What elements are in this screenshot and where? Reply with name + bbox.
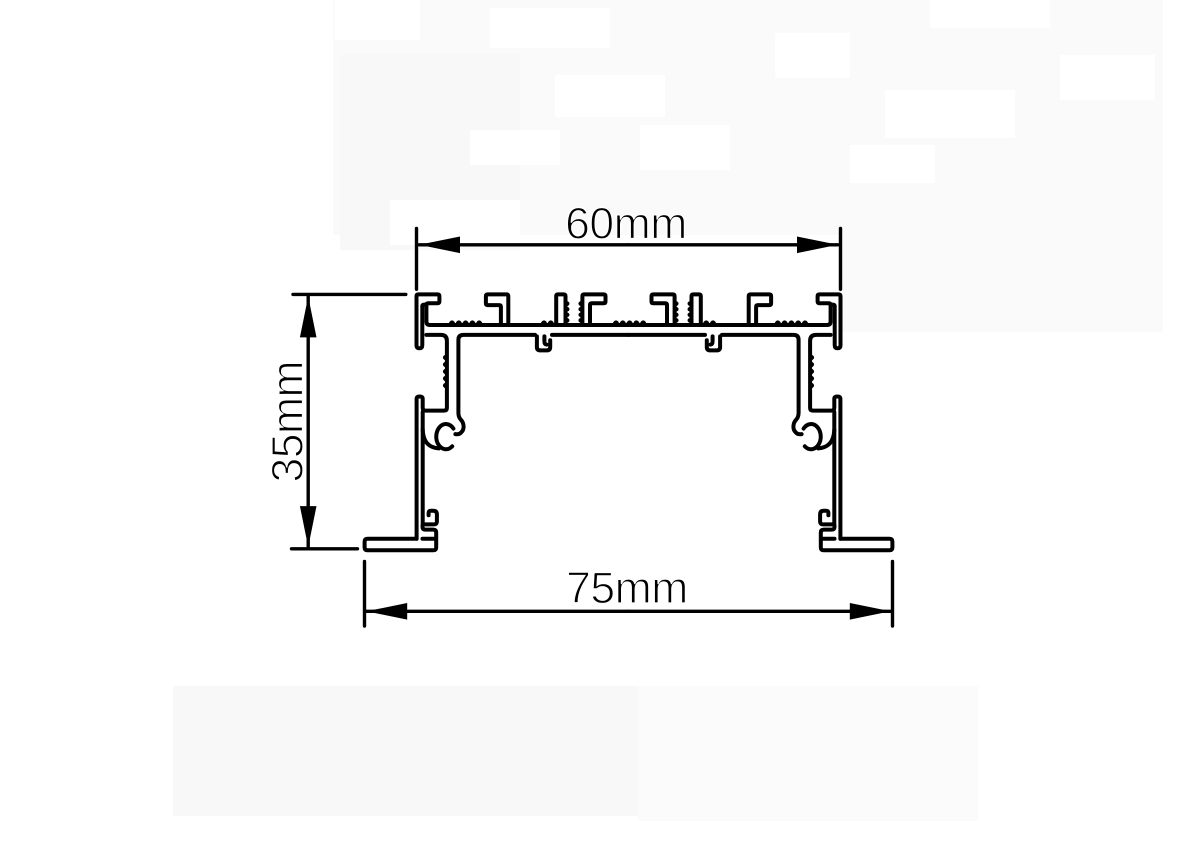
svg-text:60mm: 60mm [565, 200, 687, 249]
svg-text:75mm: 75mm [566, 564, 688, 613]
svg-text:35mm: 35mm [264, 361, 313, 483]
